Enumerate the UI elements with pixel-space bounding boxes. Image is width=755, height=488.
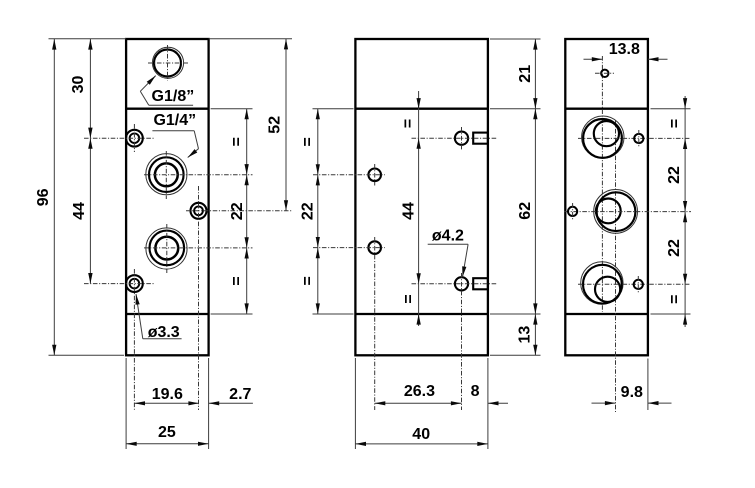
extension line top edge left [49, 38, 127, 40]
svg-text:21: 21 [517, 65, 534, 83]
svg-text:62: 62 [517, 202, 534, 220]
label 62 [517, 202, 534, 220]
extension lines right chain [651, 109, 691, 314]
svg-text:44: 44 [401, 202, 418, 220]
label 21 [517, 65, 534, 83]
port G1/4 #1 thin thread circle [146, 154, 187, 195]
middle hole L1 [368, 169, 381, 182]
side port #2 thin circle [594, 190, 638, 234]
dimension 40 [355, 426, 488, 446]
pilot hole horizontal centerline [186, 210, 292, 212]
port G1/4 #2 bore circle [150, 231, 185, 266]
svg-text:=: = [228, 276, 245, 285]
middle hole L1 centerlines [313, 164, 385, 186]
left view vertical centerline B [198, 186, 200, 410]
middle-left chain arrows [316, 109, 320, 314]
left view body outline [126, 39, 209, 355]
dimension 25 [126, 424, 209, 446]
dimension 9.8 [592, 384, 672, 405]
middle-right chain dimension line [534, 39, 536, 355]
svg-text:22: 22 [300, 202, 317, 220]
side port #3 outer [583, 265, 622, 304]
label G1/8 [152, 88, 195, 105]
extension line right bottom [208, 358, 210, 449]
dimension 2.7 [209, 386, 253, 406]
port G1/4 #2 thin thread circle [146, 228, 187, 269]
label = lower inner chain [401, 294, 418, 303]
mount hole #2 horizontal centerline [84, 283, 155, 285]
left view upper parting line [126, 108, 209, 110]
inner chain dimension line [418, 91, 420, 326]
side port #3 centerline [578, 283, 691, 285]
middle view upper parting line [355, 108, 488, 110]
svg-text:=: = [299, 137, 316, 146]
side port #2 centerline [565, 211, 692, 213]
label = upper inner chain [400, 119, 417, 128]
svg-text:52: 52 [267, 116, 284, 134]
leader G1/8 [140, 76, 193, 106]
svg-text:G1/4”: G1/4” [153, 112, 196, 129]
svg-text:25: 25 [158, 424, 176, 441]
extension line left bottom [125, 358, 127, 449]
svg-text:=: = [400, 119, 417, 128]
pilot hole outer [191, 203, 207, 219]
extension line bottom edge left [49, 354, 125, 356]
side port #3 thin circle [581, 262, 623, 304]
extension lines middle-right chain [490, 39, 541, 355]
svg-text:9.8: 9.8 [621, 384, 643, 401]
label 22 left chain [229, 202, 246, 220]
side bolt hole #2 [568, 203, 577, 220]
dimension 19.6 [134, 386, 199, 406]
svg-text:44: 44 [71, 202, 88, 220]
extension lines for left chain [211, 109, 253, 314]
svg-text:2.7: 2.7 [229, 386, 251, 403]
label diameter 4.2 [432, 228, 464, 245]
svg-text:26.3: 26.3 [404, 383, 435, 400]
middle-left chain dimension line [317, 109, 319, 314]
left chain dimension line [246, 109, 248, 314]
extension line top for 52 [209, 38, 292, 40]
middle hole L2 [368, 241, 381, 254]
right view spool centerline [615, 120, 617, 412]
svg-text:96: 96 [35, 188, 52, 206]
extension line right bottom edge [647, 359, 649, 411]
side port #1 centerline [578, 137, 691, 139]
slot R1 [473, 133, 488, 144]
label = lower right chain [667, 295, 684, 304]
right view body outline [565, 39, 648, 355]
dimension 13.8 [584, 41, 668, 61]
side port #1 inner [594, 121, 619, 146]
svg-text:22: 22 [666, 239, 683, 257]
side port #1 thin circle [582, 116, 624, 158]
port G1/4 #2 inner bore [155, 237, 178, 260]
extension lines middle-left chain [313, 109, 354, 314]
middle hole R1 centerlines [412, 127, 498, 150]
extension line middle-left bottom [354, 358, 356, 449]
middle hole R1 [455, 132, 468, 145]
svg-text:19.6: 19.6 [152, 386, 183, 403]
right chain dimension line [684, 96, 686, 327]
side bolt hole #3 [634, 276, 643, 293]
left view lower parting line [126, 313, 209, 315]
left view vertical centerline A [133, 124, 135, 410]
svg-text:ø3.3: ø3.3 [148, 324, 180, 341]
middle view body outline [355, 39, 488, 355]
right top hole centerline [595, 72, 614, 74]
label 13 [517, 326, 534, 344]
port G1/8 thin thread circle [152, 47, 183, 78]
svg-text:=: = [667, 295, 684, 304]
mount hole #2 outer [126, 275, 143, 292]
side port #1 outer [583, 119, 622, 158]
right view main centerline [601, 56, 603, 312]
label 22 lower right chain [666, 239, 683, 257]
svg-text:=: = [229, 137, 246, 146]
svg-text:22: 22 [229, 202, 246, 220]
svg-text:=: = [401, 294, 418, 303]
svg-text:22: 22 [666, 166, 683, 184]
right top hole [601, 70, 608, 77]
middle-right chain arrows [533, 39, 537, 355]
side port #2 inner [596, 199, 621, 224]
label diameter 3.3 [148, 324, 180, 341]
middle hole L2 centerlines [313, 237, 385, 410]
label = lower middle chain [299, 276, 316, 285]
label 44 inner chain [401, 202, 418, 220]
port G1/4 #2 centerlines [144, 224, 253, 273]
svg-text:13.8: 13.8 [609, 41, 640, 58]
svg-text:=: = [667, 119, 684, 128]
side port #2 outer [597, 192, 636, 231]
svg-text:ø4.2: ø4.2 [432, 228, 464, 245]
mount hole #1 inner [130, 133, 140, 143]
dimension 30 [70, 39, 93, 138]
port G1/8 bore circle [154, 50, 181, 77]
dimension 44 [71, 138, 92, 283]
port G1/4 #1 bore circle [149, 157, 184, 192]
label 22 middle chain [300, 202, 317, 220]
mount hole #1 outer [126, 130, 143, 147]
pilot hole inner [194, 206, 203, 215]
side bolt hole #1 [634, 130, 643, 147]
mount hole #2 inner [130, 279, 140, 289]
middle hole R2 [455, 277, 468, 290]
svg-text:13: 13 [517, 326, 534, 344]
label = lower left chain [228, 276, 245, 285]
svg-text:30: 30 [70, 76, 87, 94]
svg-text:=: = [299, 276, 316, 285]
label 22 upper right chain [666, 166, 683, 184]
inner chain arrows [417, 98, 421, 325]
extension line middle-right bottom [487, 358, 489, 449]
port G1/4 #1 inner bore [155, 163, 178, 186]
port G1/4 #1 centerlines [144, 151, 253, 199]
port G1/8 centerlines [148, 45, 188, 81]
svg-text:G1/8”: G1/8” [152, 88, 195, 105]
dimension 52 [267, 39, 289, 211]
middle hole R2 centerlines [412, 273, 498, 410]
label = upper middle chain [299, 137, 316, 146]
dimension 26.3 [375, 383, 462, 405]
middle view lower parting line [355, 313, 488, 315]
svg-text:40: 40 [412, 426, 430, 443]
label G1/4 [153, 112, 196, 129]
slot R2 [473, 278, 488, 289]
label = upper right chain [667, 119, 684, 128]
svg-text:8: 8 [471, 383, 480, 400]
right chain arrows [683, 98, 687, 325]
side port #3 inner [595, 277, 620, 302]
left chain arrows [245, 109, 249, 314]
leader G1/4 [152, 131, 198, 158]
label = upper left chain [229, 137, 246, 146]
mount hole #1 horizontal centerline [84, 137, 155, 139]
dimension 96 [35, 39, 56, 355]
right view upper parting line [565, 108, 648, 110]
leader diameter 3.3 [136, 294, 182, 339]
dimension 8 [471, 383, 508, 405]
right view lower parting line [565, 313, 648, 315]
leader diameter 4.2 [428, 244, 468, 277]
